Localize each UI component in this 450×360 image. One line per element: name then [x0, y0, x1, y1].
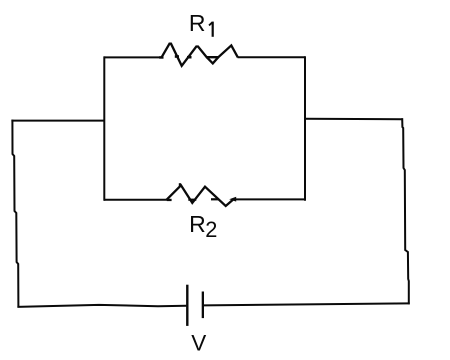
- svg-text:V: V: [191, 330, 206, 355]
- svg-text:R: R: [189, 211, 206, 237]
- svg-text:2: 2: [205, 217, 217, 242]
- svg-text:R: R: [189, 10, 206, 36]
